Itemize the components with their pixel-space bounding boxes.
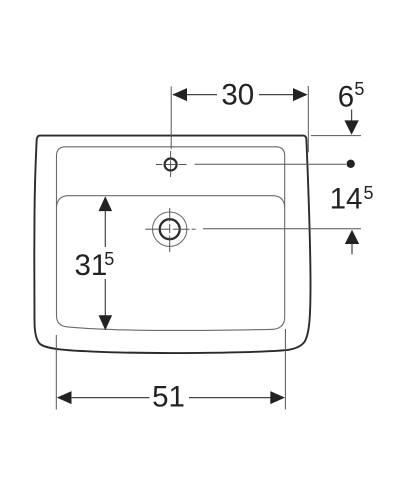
svg-text:5: 5 xyxy=(363,183,373,203)
svg-text:31: 31 xyxy=(74,249,107,282)
svg-text:30: 30 xyxy=(221,79,254,112)
svg-text:51: 51 xyxy=(152,380,185,413)
svg-text:5: 5 xyxy=(354,79,364,99)
svg-text:14: 14 xyxy=(330,183,363,216)
svg-text:5: 5 xyxy=(104,249,114,269)
svg-text:6: 6 xyxy=(338,80,354,113)
